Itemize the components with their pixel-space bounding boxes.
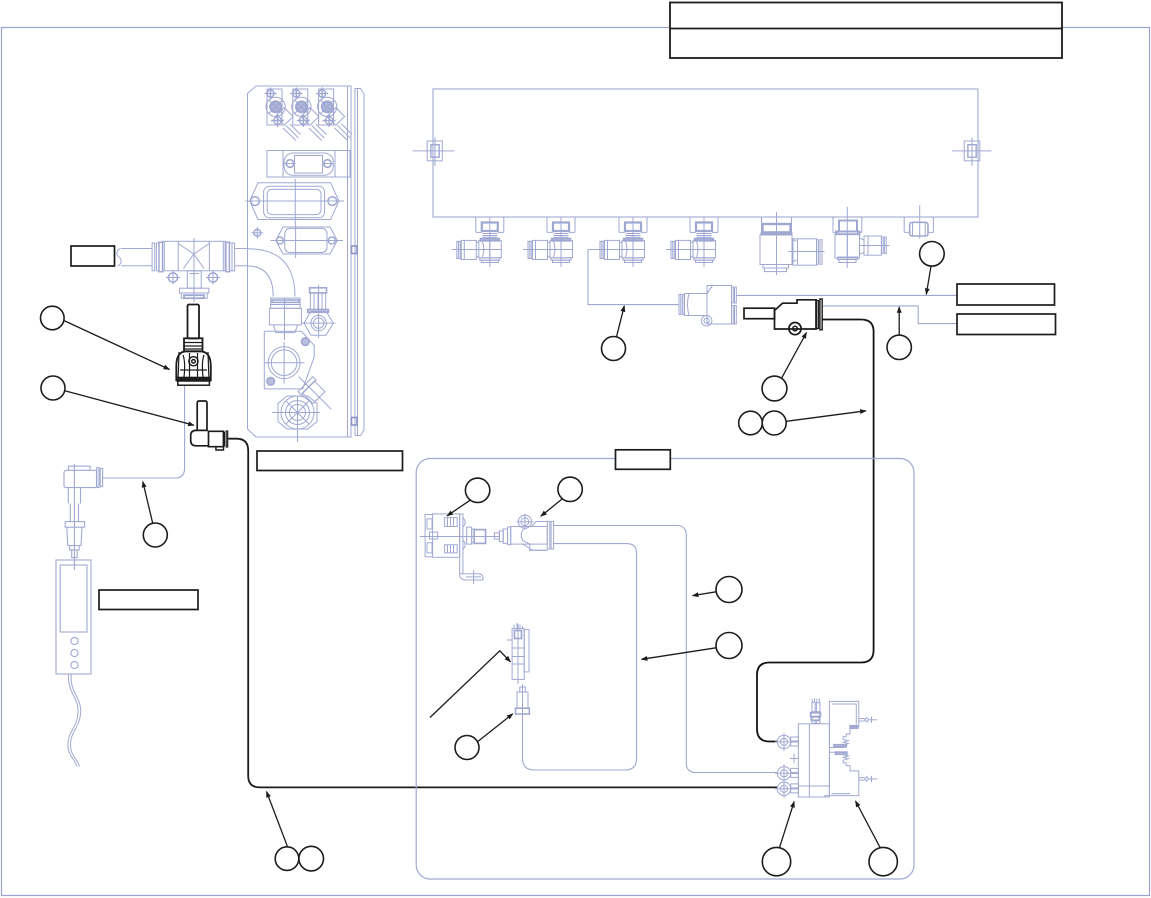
leader D1 to twin valve [780, 802, 795, 848]
leader A9 down to tube [926, 266, 931, 294]
leader A2 to exhaust elbow [65, 391, 194, 426]
leader D2 to twin valve [856, 801, 881, 848]
blue tube wye to label L2 [736, 294, 957, 296]
leader B4 to inner tube [642, 648, 717, 660]
right mount tab [952, 137, 991, 166]
label box L4 [257, 451, 403, 471]
callout circle A3 [143, 523, 167, 547]
callout circle B2 [558, 477, 582, 501]
solenoid valve unit 3 on panel top [316, 88, 352, 141]
callout circle A5 [762, 376, 787, 401]
callout circle D1 [762, 847, 790, 875]
leader B3 to outer tube [693, 592, 717, 596]
twin valve port 1 [775, 733, 799, 751]
curved tube inside panel [248, 249, 296, 297]
black tube from elbow to bottom manifold line [228, 439, 777, 788]
panel hex plate 1 [246, 179, 345, 224]
twin valve lower mount plate [829, 752, 877, 795]
manifold fitting 6 (right-elbow) [833, 207, 890, 268]
exhaust elbow fitting (black) [191, 401, 228, 450]
leader C1 to black tube corner [267, 792, 288, 847]
twin valve top fitting [811, 698, 821, 723]
manifold fitting 3 [595, 218, 647, 268]
label box L2 [957, 284, 1055, 305]
panel side port fitting + hex nut [302, 285, 336, 338]
callout circle A4 [602, 337, 626, 361]
callout circle A9 [920, 242, 945, 267]
panel bottom drain fitting [272, 370, 338, 442]
label box L3 [957, 314, 1056, 335]
callout circle A7 [762, 411, 786, 435]
pilot cylinder (in box, blue) [490, 514, 554, 551]
solenoid pilot valve (in box, blue) [420, 514, 490, 584]
pressure switch / controller (blue) [56, 560, 91, 674]
label box L6 (controller label) [99, 590, 198, 610]
panel elbow valve body [264, 331, 314, 389]
panel connector block row [267, 151, 350, 178]
left mount tab [413, 137, 455, 166]
title table [670, 3, 1062, 59]
distribution manifold panel (top, blue) [433, 89, 978, 217]
callout circle C1 [275, 847, 299, 871]
label box L1 (top-left) [71, 246, 115, 266]
callout circle A8 [887, 335, 911, 359]
twin valve upper mount plate [829, 701, 877, 747]
manifold fitting 2 [523, 218, 575, 268]
callout circle A2 [41, 376, 65, 400]
solenoid valve unit 1 on panel top [265, 88, 301, 141]
blue tube inner (cylinder to flow control fitting) [523, 544, 637, 770]
manifold fitting 4 [666, 218, 718, 268]
panel push-in fitting vertical [269, 298, 301, 340]
controller cable [68, 674, 81, 767]
callout circle A6 [739, 411, 763, 435]
callout circle B3 [716, 577, 742, 603]
leader A8 up to tube [898, 307, 900, 335]
supply tube from label to tee [117, 249, 248, 266]
leader A4 to tube [617, 306, 625, 337]
manifold fitting 5 (large right-elbow) [760, 212, 825, 275]
manifold fitting 7 (plug stub) [904, 205, 933, 239]
panel rail clip top [352, 246, 358, 254]
leader B5 bent to flow control [430, 651, 511, 718]
muffler silencer (black) [176, 305, 211, 386]
equipment enclosure rounded box [416, 459, 914, 880]
manifold panel body (left CAD panel) [248, 86, 365, 437]
leader B6 to inline fitting [478, 714, 513, 742]
twin valve port 2 [775, 764, 799, 782]
label box L5 [616, 450, 671, 470]
twin valve port 3 [775, 780, 799, 798]
air supply elbow fitting left (blue) [64, 464, 103, 570]
panel rail clip bottom [352, 418, 358, 426]
flow control valve (in box, blue) [507, 623, 529, 684]
blue tube outer (cylinder to twin valve port 2) [553, 526, 777, 773]
leader A3 to supply tube [143, 482, 153, 524]
leader A1 to muffler [64, 321, 170, 370]
callout circle B6 [455, 736, 479, 760]
blue tube from fitting 3 to wye [588, 249, 679, 304]
twin solenoid valve assembly (in box, blue) [790, 724, 830, 797]
inline fitting below flow control (blue) [516, 684, 530, 716]
leader A5 to hand valve [782, 333, 807, 379]
callout circle D2 [869, 847, 897, 875]
wye fitting (blue) [679, 286, 736, 327]
blue tube valve to label L3 [822, 306, 957, 324]
leader A7 to black tube [786, 411, 866, 422]
callout circle B4 [716, 633, 742, 659]
blue tube from muffler down to elbow fitting [103, 386, 185, 478]
leader B2 to cylinder [541, 499, 563, 516]
black tube from hand valve down to twin valve port 1 [757, 320, 874, 742]
union tee fitting [152, 238, 235, 302]
callout circle C2 [299, 846, 324, 871]
manifold fitting 1 (left-elbow type) [452, 218, 504, 268]
callout circle A1 [41, 306, 65, 330]
leader B1 to pilot valve [447, 500, 470, 516]
hand valve (black) [744, 299, 822, 335]
panel hex plate 2 [251, 224, 343, 259]
callout circle B1 [465, 478, 489, 502]
solenoid valve unit 2 on panel top [290, 88, 326, 141]
